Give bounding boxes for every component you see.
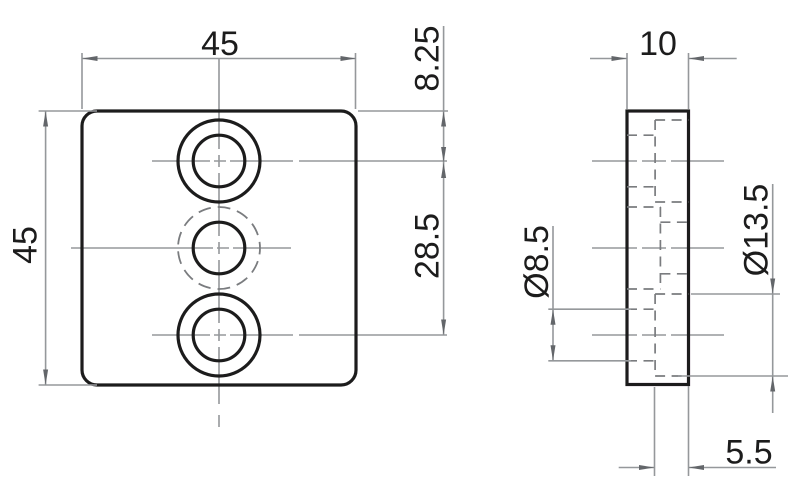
hole H1 horizontal centerline: [152, 160, 447, 162]
dimension D13.5 : dimension line with outside arrows: [772, 184, 774, 413]
svg-text:Ø8.5: Ø8.5: [518, 225, 556, 299]
dimension 45 left : dimension line: [45, 111, 47, 385]
dimension 28.5 : arrows: [441, 163, 446, 179]
plate outline front view: [82, 111, 356, 385]
side view centerline hole H2: [592, 247, 724, 249]
hole H2 hidden lines side view: [627, 206, 660, 208]
dimension D8.5 : dimension line: [552, 226, 554, 361]
dimension 45 top : dimension line: [82, 58, 356, 60]
dimension 10 : dimension line with outside arrows: [590, 58, 627, 60]
hole H2 hidden counterbore circle: [178, 207, 260, 289]
hole H1 counterbore circle: [178, 120, 260, 202]
dimension 45 top : extension lines: [81, 53, 83, 109]
side view outline: [627, 111, 689, 385]
svg-text:8.25: 8.25: [409, 25, 447, 91]
svg-text:5.5: 5.5: [725, 434, 772, 472]
dimension D8.5 : extension lines: [548, 308, 631, 310]
svg-text:10: 10: [639, 25, 677, 63]
hole H3 hidden lines side view: [655, 293, 688, 295]
hole H2 through circle: [193, 222, 245, 274]
plate symmetry centerline: [71, 247, 291, 249]
front view vertical centerline: [218, 59, 220, 427]
hole H3 horizontal centerline: [152, 334, 447, 336]
dimension 5.5 : extension lines: [654, 387, 656, 476]
dimension 45 left : extension lines: [39, 110, 97, 112]
hole H3 counterbore circle: [178, 294, 260, 376]
dimension 8.25 / 28.5 : dimension line: [443, 26, 445, 336]
side view centerline hole H3: [592, 334, 724, 336]
dimension 5.5 : dimension line with outside arrows: [619, 467, 655, 469]
dimension 10 : extension lines: [626, 53, 628, 109]
svg-text:Ø13.5: Ø13.5: [738, 184, 776, 277]
dimension 8.25 : extension line top: [358, 110, 448, 112]
svg-text:45: 45: [201, 25, 239, 63]
svg-text:45: 45: [7, 226, 45, 264]
svg-text:28.5: 28.5: [409, 213, 447, 279]
hole H1 through circle: [193, 135, 245, 187]
dimension D13.5 : extension lines: [691, 293, 780, 295]
side view centerline hole H1: [592, 160, 724, 162]
hole H3 through circle: [193, 309, 245, 361]
hole H1 hidden lines side view: [655, 119, 688, 121]
